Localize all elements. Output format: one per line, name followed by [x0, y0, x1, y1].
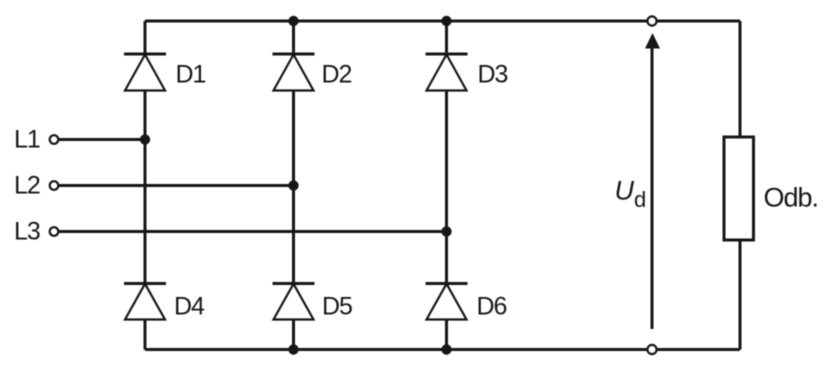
- svg-text:D6: D6: [477, 293, 507, 321]
- svg-text:D1: D1: [176, 61, 206, 89]
- diode D2: [273, 54, 315, 91]
- node: junction top rail / D3 branch: [441, 16, 451, 26]
- arrowhead of Ud: [645, 33, 660, 49]
- wire: phase L1 lead: [59, 138, 145, 141]
- svg-text:D5: D5: [322, 293, 352, 321]
- node: junction L1 / D1 branch: [140, 134, 150, 144]
- wire: load branch: [739, 21, 742, 350]
- wire: middle bridge branch (D2/D5): [292, 21, 295, 350]
- terminal: L3 input: [50, 227, 59, 236]
- wire: bottom negative rail: [145, 348, 740, 351]
- wire: phase L2 lead: [59, 184, 294, 187]
- svg-text:L2: L2: [14, 172, 40, 200]
- terminal: output positive: [647, 16, 656, 25]
- svg-text:d: d: [634, 187, 646, 212]
- node: junction bottom rail / D5 branch: [288, 344, 298, 354]
- svg-text:L1: L1: [14, 126, 40, 154]
- diode D6: [426, 284, 468, 320]
- diode D1: [124, 54, 166, 91]
- svg-text:D2: D2: [322, 61, 352, 89]
- svg-text:L3: L3: [14, 218, 40, 246]
- node: junction top rail / D2 branch: [288, 16, 298, 26]
- terminal: output negative: [647, 345, 656, 354]
- wire: Ud arrow shaft: [651, 46, 654, 329]
- node: junction L2 / D2 branch: [288, 180, 298, 190]
- wire: left bridge branch (D1/D4): [144, 21, 147, 350]
- terminal: L1 input: [50, 135, 59, 144]
- node: junction L3 / D3 branch: [441, 226, 451, 236]
- resistor Odb. (load): [724, 137, 754, 240]
- diode D5: [273, 284, 315, 320]
- svg-text:D3: D3: [478, 61, 508, 89]
- terminal: L2 input: [50, 181, 59, 190]
- svg-text:U: U: [615, 176, 635, 206]
- diode D3: [426, 54, 468, 91]
- wire: right bridge branch (D3/D6): [445, 21, 448, 350]
- wire: top positive rail: [145, 20, 740, 23]
- wire: phase L3 lead: [59, 230, 447, 233]
- node: junction bottom rail / D6 branch: [441, 344, 451, 354]
- svg-text:Odb.: Odb.: [764, 183, 819, 213]
- diode D4: [124, 284, 166, 320]
- svg-text:D4: D4: [174, 293, 205, 321]
